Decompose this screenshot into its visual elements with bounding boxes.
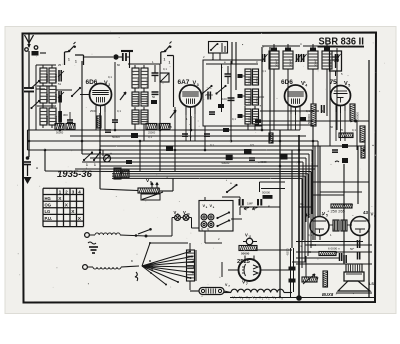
svg-text:100: 100 — [222, 97, 227, 101]
svg-text:52510: 52510 — [45, 115, 49, 124]
svg-text:HG: HG — [45, 196, 51, 201]
svg-text:0,1: 0,1 — [210, 143, 214, 147]
svg-text:25000: 25000 — [148, 131, 156, 135]
svg-text:20512: 20512 — [248, 96, 252, 104]
svg-text:52510: 52510 — [45, 73, 49, 82]
svg-text:25: 25 — [58, 63, 62, 67]
svg-text:2500: 2500 — [90, 109, 97, 113]
svg-text:0,1: 0,1 — [232, 117, 236, 121]
svg-text:0,5: 0,5 — [168, 125, 172, 129]
svg-text:20512: 20512 — [255, 76, 259, 84]
svg-text:50000: 50000 — [241, 252, 250, 256]
svg-text:10047: 10047 — [275, 59, 279, 67]
svg-text:1: 1 — [86, 163, 88, 167]
svg-text:10047: 10047 — [137, 115, 141, 123]
svg-text:10047: 10047 — [137, 79, 141, 87]
svg-text:0,1: 0,1 — [163, 67, 167, 71]
svg-text:10047: 10047 — [146, 115, 150, 123]
svg-text:0,1: 0,1 — [300, 202, 304, 206]
svg-text:50: 50 — [350, 247, 354, 251]
svg-text:1935-36: 1935-36 — [57, 169, 93, 180]
svg-text:0,1: 0,1 — [352, 128, 356, 132]
svg-text:20512: 20512 — [248, 76, 252, 84]
svg-text:0,1: 0,1 — [148, 135, 152, 139]
svg-text:10047: 10047 — [146, 79, 150, 87]
svg-text:0,5: 0,5 — [250, 143, 254, 147]
svg-text:25: 25 — [308, 250, 312, 254]
svg-text:+ 250 265: + 250 265 — [327, 209, 346, 214]
svg-text:75: 75 — [330, 79, 338, 86]
svg-text:0000: 0000 — [310, 243, 317, 247]
svg-text:10047: 10047 — [314, 59, 318, 67]
svg-text:43: 43 — [363, 210, 369, 215]
svg-text:52510: 52510 — [45, 93, 49, 102]
svg-text:52510: 52510 — [54, 73, 58, 82]
svg-text:52510: 52510 — [54, 93, 58, 102]
svg-text:20512: 20512 — [248, 115, 252, 123]
svg-text:51: 51 — [58, 82, 62, 86]
svg-text:50: 50 — [152, 95, 156, 99]
svg-text:7: 7 — [246, 282, 248, 286]
svg-text:P.U.: P.U. — [45, 216, 53, 221]
svg-text:1: 1 — [164, 58, 166, 62]
svg-text:0,1: 0,1 — [262, 69, 266, 73]
svg-text:0,1: 0,1 — [117, 109, 121, 113]
svg-text:50000: 50000 — [222, 161, 230, 165]
svg-text:50000: 50000 — [262, 191, 270, 195]
svg-text:5: 5 — [348, 84, 350, 88]
svg-text:10047: 10047 — [289, 59, 293, 67]
svg-text:OG: OG — [45, 203, 52, 208]
svg-text:1: 1 — [75, 60, 77, 64]
svg-text:300: 300 — [63, 113, 68, 117]
svg-text:1: 1 — [68, 58, 70, 62]
svg-text:25: 25 — [340, 128, 344, 132]
svg-text:50000: 50000 — [112, 135, 120, 139]
svg-text:0,1: 0,1 — [108, 75, 112, 79]
svg-text:LS: LS — [369, 282, 374, 286]
svg-text:50: 50 — [117, 63, 121, 67]
svg-text:52510: 52510 — [54, 115, 58, 124]
svg-text:1: 1 — [169, 61, 171, 65]
svg-text:BUX8: BUX8 — [322, 292, 334, 297]
svg-text:5000: 5000 — [258, 95, 265, 99]
svg-text:a 0000: a 0000 — [258, 160, 267, 164]
svg-text:10047: 10047 — [146, 97, 150, 105]
svg-text:5: 5 — [326, 213, 328, 217]
svg-text:500000: 500000 — [307, 114, 311, 124]
svg-text:-8250: -8250 — [286, 248, 290, 256]
svg-text:0,1: 0,1 — [306, 109, 310, 113]
svg-text:1: 1 — [94, 163, 96, 167]
svg-text:=: = — [36, 166, 38, 170]
svg-text:25000: 25000 — [205, 93, 213, 97]
svg-text:4: 4 — [305, 84, 307, 88]
svg-text:0,5: 0,5 — [308, 233, 312, 237]
svg-text:6 0000 n: 6 0000 n — [328, 247, 340, 251]
svg-text:1MF: 1MF — [247, 202, 253, 206]
svg-text:50: 50 — [330, 125, 334, 129]
svg-text:10047: 10047 — [137, 97, 141, 105]
svg-text:LG: LG — [45, 209, 51, 214]
